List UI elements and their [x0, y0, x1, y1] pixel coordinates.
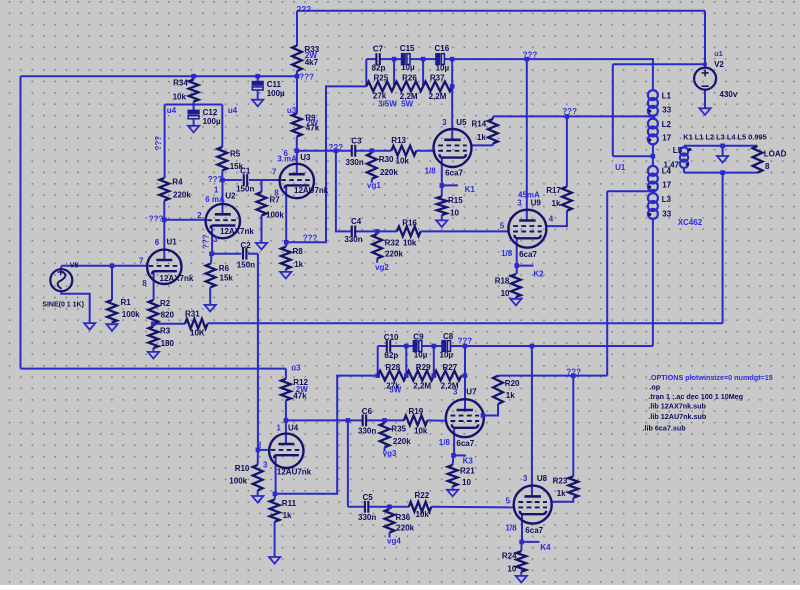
svg-text:U9: U9	[531, 198, 542, 207]
wire U5 cathode lead	[441, 158, 443, 186]
svg-text:U8: U8	[537, 474, 548, 483]
svg-text:12AU7nk: 12AU7nk	[277, 468, 312, 477]
svg-text:220k: 220k	[385, 250, 403, 259]
wire R24 leads	[520, 542, 522, 551]
wire U7 plate lead	[464, 376, 466, 412]
wire ladder node links	[393, 59, 395, 86]
wire R5 top lead	[221, 105, 223, 148]
wire C6 row to C5 row link	[347, 420, 349, 506]
wire R33 top lead	[296, 11, 298, 46]
resistor R31	[185, 319, 208, 329]
inductor L4	[648, 166, 658, 176]
tube U1 12AX7	[147, 250, 181, 284]
wire R20 bottom to U7 screen	[483, 404, 498, 416]
junction U4 cathode	[273, 492, 278, 497]
wire U1 plate to U2 grid	[164, 219, 206, 221]
wire screen supply horizontal	[493, 115, 653, 117]
svg-text:C16: C16	[435, 44, 450, 53]
svg-text:R5: R5	[230, 149, 241, 158]
wire left vertical to u3	[20, 76, 22, 368]
svg-text:K2: K2	[533, 269, 544, 278]
wire R23 top lead	[572, 376, 574, 477]
svg-text:R17: R17	[546, 186, 561, 195]
tube U9 6ca7	[508, 210, 546, 248]
wire center tap to L4	[652, 156, 654, 167]
svg-text:???: ???	[329, 143, 344, 152]
svg-text:6: 6	[155, 238, 160, 247]
wire R11 bottom lead	[274, 522, 276, 557]
junction R34 top	[191, 74, 196, 79]
wire B+ screen feed	[452, 59, 653, 91]
wire L5 top lead	[683, 146, 685, 149]
wire R3 bottom lead	[152, 348, 154, 352]
wire U5 plate lead	[451, 86, 453, 140]
junction secondary bottom	[720, 170, 725, 175]
wire K1 stub	[442, 184, 458, 186]
svg-text:R11: R11	[282, 499, 297, 508]
junction C6-C5 link	[346, 418, 351, 423]
ground V2	[699, 108, 710, 115]
wire C2 to U4 grid vertical	[257, 254, 259, 450]
svg-text:3/5W 5W: 3/5W 5W	[378, 100, 414, 109]
svg-text:82p: 82p	[372, 64, 386, 73]
resistor R27	[434, 371, 462, 381]
wire ladder left link	[365, 59, 367, 86]
junction lower ladder res2	[432, 373, 437, 378]
svg-text:1/8: 1/8	[505, 523, 517, 532]
capacitor C2	[242, 248, 244, 260]
svg-text:10µ: 10µ	[440, 351, 454, 360]
svg-text:8: 8	[765, 162, 770, 171]
junction U9 plate column	[525, 57, 530, 62]
svg-text:u4: u4	[167, 106, 177, 115]
wire U8 cathode lead	[521, 515, 523, 542]
resistor R5	[217, 147, 227, 171]
svg-text:R28: R28	[386, 363, 401, 372]
wire C5 right lead	[368, 506, 389, 508]
wire R9 leads	[296, 76, 298, 113]
svg-text:???: ???	[303, 234, 318, 243]
wire L4-L3 junction	[652, 190, 654, 194]
wire secondary bottom	[684, 172, 758, 174]
svg-text:C8: C8	[443, 332, 454, 341]
capacitor C16	[435, 53, 440, 65]
resistor R26	[394, 82, 423, 92]
wire lower ladder cap row	[378, 345, 386, 347]
wire U5 screen to R14	[471, 144, 493, 146]
wire C1 leads	[223, 179, 243, 181]
svg-text:C6: C6	[362, 407, 373, 416]
junction lower ladder cap2	[432, 344, 437, 349]
resistor R17	[562, 187, 572, 211]
svg-text:3: 3	[523, 474, 528, 483]
wire u3 horizontal to R12	[21, 368, 286, 370]
svg-text:???: ???	[299, 72, 314, 81]
svg-text:330n: 330n	[346, 158, 364, 167]
wire R12 top lead	[285, 369, 287, 379]
svg-text:330n: 330n	[358, 427, 376, 436]
svg-text:U7: U7	[466, 387, 477, 396]
junction U7 screen	[481, 413, 486, 418]
svg-text:6ca7: 6ca7	[445, 168, 463, 177]
resistor R30	[367, 153, 377, 179]
wire U9 cathode lead	[516, 239, 518, 266]
svg-text:100k: 100k	[122, 310, 140, 319]
wire R13 right to U5 grid	[416, 150, 435, 152]
wire center-tap horizontal	[613, 155, 653, 157]
svg-text:U1: U1	[615, 163, 626, 172]
wire feedback vertical	[722, 173, 724, 324]
svg-text:220k: 220k	[380, 168, 398, 177]
svg-text:.lib 12AX7nk.sub: .lib 12AX7nk.sub	[648, 401, 706, 410]
capacitor C11	[252, 81, 264, 86]
wire U2 cathode lead	[211, 227, 213, 253]
wire R10 leads	[257, 450, 259, 465]
wire R17 bottom to U9 screen	[546, 211, 567, 226]
svg-text:47k: 47k	[306, 124, 320, 133]
svg-text:10µ: 10µ	[414, 350, 428, 359]
svg-text:R6: R6	[219, 264, 230, 273]
wire R16 leads to U9 grid	[377, 230, 397, 232]
svg-text:R15: R15	[448, 196, 463, 205]
junction R17 top	[565, 114, 570, 119]
wire U8 plate lead	[531, 346, 533, 497]
junction C3 node	[334, 148, 339, 153]
svg-text:XC462: XC462	[678, 218, 703, 227]
wire R12 bottom to U4 plate node	[285, 400, 287, 420]
voltage source V2	[694, 68, 716, 90]
resistor R35	[380, 423, 390, 447]
svg-text:C7: C7	[373, 45, 384, 54]
wire U9 plate lead	[526, 59, 528, 220]
svg-text:100k: 100k	[266, 211, 284, 220]
wire L2 to center tap	[652, 143, 654, 156]
svg-text:.lib 12AU7nk.sub: .lib 12AU7nk.sub	[648, 412, 707, 421]
junction U8 cathode	[519, 540, 524, 545]
wire U3 cathode lead	[285, 186, 287, 243]
resistor R16	[397, 227, 421, 237]
svg-text:820: 820	[161, 310, 175, 319]
svg-text:SINE(0 1 1K): SINE(0 1 1K)	[42, 302, 84, 309]
ground R15	[436, 220, 447, 227]
svg-text:1k: 1k	[294, 260, 303, 269]
wire L5 bottom lead	[683, 167, 685, 173]
svg-text:C1: C1	[240, 166, 251, 175]
capacitor C12	[188, 110, 200, 115]
svg-text:K1 L1 L2 L3 L4 L5 0.995: K1 L1 L2 L3 L4 L5 0.995	[683, 132, 766, 141]
wire K4 stub	[522, 541, 540, 543]
svg-text:6ca7: 6ca7	[525, 526, 543, 535]
svg-text:10k: 10k	[403, 239, 417, 248]
svg-text:R10: R10	[235, 464, 250, 473]
ground R10	[252, 496, 263, 503]
resistor R3	[149, 327, 159, 349]
svg-text:10k: 10k	[416, 510, 430, 519]
svg-text:R24: R24	[502, 552, 517, 561]
svg-text:3: 3	[442, 118, 447, 127]
svg-text:V5: V5	[70, 263, 79, 270]
svg-text:3: 3	[263, 461, 268, 470]
svg-text:100µ: 100µ	[203, 117, 221, 126]
resistor R28	[378, 371, 407, 381]
svg-text:10k: 10k	[173, 93, 187, 102]
wire U2 plate lead	[222, 180, 224, 214]
junction R1 input	[110, 264, 115, 269]
svg-text:???: ???	[297, 5, 312, 14]
svg-text:1k: 1k	[552, 199, 561, 208]
resistor R22	[409, 502, 432, 512]
svg-text:150n: 150n	[236, 184, 254, 193]
svg-text:u1: u1	[714, 49, 723, 58]
junction U5 cathode	[440, 183, 445, 188]
svg-text:R31: R31	[185, 310, 200, 319]
svg-text:1.47: 1.47	[664, 161, 680, 170]
svg-text:3 mA: 3 mA	[277, 155, 297, 164]
resistor R33	[292, 46, 302, 72]
wire input to U1 grid	[61, 265, 147, 267]
svg-text:R2: R2	[160, 299, 171, 308]
resistor R29	[406, 371, 434, 381]
wire screen drive row	[498, 375, 607, 377]
svg-text:6ca7: 6ca7	[519, 250, 537, 259]
ground R7	[256, 243, 267, 250]
wire lower ladder node links	[405, 346, 407, 376]
svg-text:8: 8	[142, 279, 147, 288]
svg-text:3: 3	[213, 235, 218, 244]
tube U4 12AU7	[269, 434, 303, 468]
wire R5 bottom lead	[221, 171, 223, 181]
svg-text:u4: u4	[228, 106, 238, 115]
svg-text:R30: R30	[379, 155, 394, 164]
ground C12	[188, 126, 199, 133]
svg-text:???: ???	[149, 215, 164, 224]
ground R18	[510, 299, 521, 306]
ground V5	[84, 323, 95, 330]
junction R36 top	[387, 505, 392, 510]
svg-text:U4: U4	[288, 424, 299, 433]
wire R18 leads	[516, 266, 518, 275]
svg-text:1k: 1k	[283, 511, 292, 520]
junction L1-L2	[651, 115, 656, 120]
wire R22 leads to U8 grid	[390, 506, 409, 508]
svg-text:10k: 10k	[396, 157, 410, 166]
junction U3 plate	[295, 148, 300, 153]
svg-text:C10: C10	[384, 333, 399, 342]
junction R23 top	[571, 373, 576, 378]
svg-text:10µ: 10µ	[401, 63, 415, 72]
svg-text:10: 10	[501, 289, 510, 298]
wire center-tap riser vertical	[612, 64, 614, 156]
svg-text:???: ???	[208, 175, 223, 184]
svg-text:R1: R1	[121, 298, 132, 307]
wire R6 leads	[210, 254, 213, 264]
wire ladder cap row	[366, 58, 376, 60]
junction C11 top	[255, 74, 260, 79]
wire C3 leads	[336, 150, 352, 152]
wire V2 plus to center-tap riser	[613, 63, 705, 65]
junction U3 cathode	[284, 240, 289, 245]
svg-text:12AX7nk: 12AX7nk	[220, 227, 254, 236]
svg-text:K3: K3	[463, 457, 474, 466]
wire R2-R3 link	[152, 324, 154, 327]
tube U7 6ca7	[446, 399, 484, 437]
wire R34 leads	[193, 76, 195, 79]
svg-text:2,2M: 2,2M	[441, 382, 459, 391]
capacitor C7	[375, 53, 377, 65]
resistor R36	[385, 509, 395, 533]
svg-text:C15: C15	[400, 44, 415, 53]
svg-text:1: 1	[214, 186, 219, 195]
junction U1 plate	[162, 218, 167, 223]
wire U1 cathode lead	[153, 271, 155, 300]
svg-text:10: 10	[450, 208, 459, 217]
junction U7 cathode	[451, 453, 456, 458]
wire lower ladder left link	[377, 346, 379, 376]
wire u4 row horizontal	[165, 104, 223, 106]
svg-text:L2: L2	[662, 120, 672, 129]
svg-text:8: 8	[274, 189, 279, 198]
svg-text:1k: 1k	[477, 133, 486, 142]
wire R4 bottom lead	[163, 201, 165, 220]
svg-text:???: ???	[562, 107, 577, 116]
svg-text:R18: R18	[495, 277, 510, 286]
svg-text:R3: R3	[160, 327, 171, 336]
svg-text:R20: R20	[505, 379, 520, 388]
junction lower ladder res3	[463, 373, 468, 378]
wire R15 leads	[441, 185, 443, 196]
svg-text:1k: 1k	[557, 489, 566, 498]
svg-text:V2: V2	[714, 60, 724, 69]
resistor R23	[568, 476, 578, 498]
svg-text:220k: 220k	[396, 524, 414, 533]
wire R1 bottom lead	[111, 323, 113, 325]
ground C11	[252, 100, 263, 107]
svg-text:12AX7nk: 12AX7nk	[160, 274, 194, 283]
wire R23 bottom to U8 screen	[551, 498, 573, 502]
wire C4 right lead	[355, 230, 377, 232]
svg-text:6 mA: 6 mA	[205, 195, 225, 204]
wire R30 stub vg1	[371, 151, 373, 153]
svg-text:U5: U5	[456, 118, 467, 127]
svg-text:45mA: 45mA	[518, 191, 540, 200]
svg-text:1/8: 1/8	[501, 249, 513, 258]
inductor L5	[680, 147, 688, 155]
svg-text:C5: C5	[363, 493, 374, 502]
resistor R8	[281, 247, 291, 269]
inductor L1	[648, 90, 658, 100]
svg-text:.OPTIONS plotwinsize=0 numdgt=: .OPTIONS plotwinsize=0 numdgt=15	[649, 373, 773, 382]
wire V2 top lead	[704, 11, 706, 68]
svg-text:U3: U3	[300, 153, 311, 162]
svg-text:C9: C9	[413, 332, 424, 341]
junction lower ladder res left	[375, 373, 380, 378]
wire R11 top lead	[274, 494, 277, 500]
svg-text:???: ???	[202, 234, 211, 249]
capacitor C1	[243, 174, 245, 186]
inductor L2	[648, 119, 658, 129]
svg-text:7: 7	[272, 167, 277, 176]
resistor R14	[488, 119, 498, 144]
resistor R11	[270, 500, 280, 522]
svg-text:vg2: vg2	[375, 263, 389, 272]
svg-text:10: 10	[507, 565, 516, 574]
wire V2 bottom lead	[704, 90, 706, 109]
ground R6	[205, 305, 216, 312]
resistor R2	[149, 300, 159, 324]
svg-text:???: ???	[566, 367, 581, 376]
svg-text:.tran 1 ;.ac dec 100 1 10Meg: .tran 1 ;.ac dec 100 1 10Meg	[648, 392, 743, 401]
svg-text:L3: L3	[662, 195, 672, 204]
junction ladder node1	[392, 57, 397, 62]
junction V2 plus	[703, 62, 707, 66]
wire U4 plate node to C6	[286, 419, 348, 421]
svg-text:R26: R26	[402, 74, 417, 83]
tube U5 6ca7	[434, 129, 472, 167]
junction center tap	[651, 154, 656, 159]
wire K2 stub	[517, 265, 534, 267]
resistor R6	[206, 264, 216, 288]
capacitor C5	[364, 501, 366, 513]
junction R32 top	[375, 229, 380, 234]
wire U7 cathode lead	[453, 428, 455, 455]
svg-text:2: 2	[197, 211, 202, 220]
junction U2 plate	[220, 178, 225, 183]
wire R33 bottom lead	[296, 71, 298, 76]
voltage source V5	[50, 269, 72, 291]
junction ladder node2	[421, 57, 426, 62]
wire R14 top lead	[492, 116, 494, 119]
svg-text:5: 5	[506, 497, 511, 506]
wire top B+ horizontal	[297, 10, 705, 12]
wire R8 leads	[285, 242, 287, 246]
svg-text:L5: L5	[673, 146, 683, 155]
svg-text:R23: R23	[553, 476, 568, 485]
wire C6 leads	[348, 419, 363, 421]
svg-text:R36: R36	[396, 513, 411, 522]
wire C2 row	[212, 253, 242, 255]
wire R31 left lead	[153, 323, 185, 325]
svg-text:2,2M: 2,2M	[429, 92, 447, 101]
capacitor C6	[362, 415, 364, 427]
wire L4-L3 tap vertical to R20 R23 row	[606, 191, 608, 375]
svg-text:330n: 330n	[358, 513, 376, 522]
svg-text:150n: 150n	[237, 260, 255, 269]
wire R19 leads to U7 grid	[385, 419, 404, 421]
svg-text:33: 33	[662, 106, 671, 115]
svg-text:3: 3	[517, 199, 522, 208]
svg-text:R34: R34	[173, 78, 188, 87]
junction U4 grid	[256, 448, 261, 453]
svg-text:47k: 47k	[293, 392, 307, 401]
svg-text:C2: C2	[241, 241, 252, 250]
svg-text:C3: C3	[351, 137, 362, 146]
wire V5 bottom to ground	[61, 291, 89, 323]
wire U3 plate lead	[296, 151, 298, 175]
svg-text:100µ: 100µ	[267, 89, 285, 98]
svg-text:LOAD: LOAD	[764, 150, 787, 159]
junction R30 top	[370, 148, 375, 153]
wire L3 bottom to cap row	[652, 218, 654, 346]
junction R35 top	[382, 418, 387, 423]
junction L4-L3	[651, 189, 656, 194]
resistor R19	[404, 416, 427, 426]
wire R36 stub vg4	[389, 507, 391, 509]
capacitor C3	[351, 145, 353, 157]
ground R8	[280, 272, 291, 279]
wire C1 to U3 grid	[262, 179, 280, 181]
wire K3 stub	[454, 454, 466, 456]
svg-text:33: 33	[662, 209, 671, 218]
